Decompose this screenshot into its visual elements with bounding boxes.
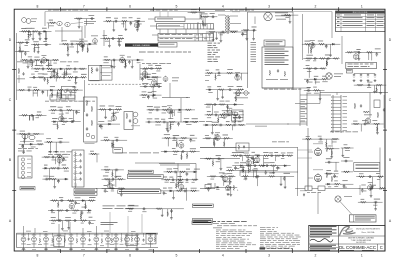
value label — [147, 105, 153, 108]
wire drop W2 — [39, 31, 41, 37]
resistor R52 — [55, 76, 62, 78]
wire net W240 — [359, 187, 384, 189]
svg-text:1: 1 — [361, 5, 363, 9]
ground G20 — [289, 21, 292, 24]
ground G46 — [22, 151, 25, 154]
label box r3c1a — [20, 187, 35, 190]
diode CR22 — [64, 178, 68, 180]
resistor R90 — [237, 89, 244, 91]
wire net W174 — [102, 178, 126, 180]
ref label — [234, 167, 239, 170]
caption r2c2 top — [142, 62, 171, 65]
ref label — [361, 190, 366, 193]
ref label — [53, 123, 57, 126]
diode CR21 — [44, 167, 48, 169]
ref label — [89, 222, 94, 225]
resistor R39 — [306, 58, 313, 60]
value label — [21, 27, 26, 30]
resistor R176 — [326, 173, 333, 175]
ref label — [241, 33, 246, 36]
value label — [49, 19, 53, 22]
resistor R165 — [205, 158, 212, 160]
value label — [362, 119, 368, 122]
resistor R50 — [79, 68, 86, 70]
value label — [284, 172, 291, 175]
resistor R167 — [227, 169, 234, 171]
capacitor C115 shunt — [81, 211, 84, 215]
wire drop W202 — [274, 156, 276, 161]
cluster mid r2c2 — [146, 105, 199, 132]
resistor R113 pulldown — [376, 126, 378, 132]
wire drop W156 — [25, 134, 27, 139]
cluster r3c3 low — [206, 173, 237, 197]
wire drop W78 — [64, 69, 66, 76]
value label — [326, 157, 331, 160]
resistor R103 pulldown — [217, 118, 219, 124]
capacitor C27 shunt — [53, 69, 56, 73]
resistor R28 pulldown — [125, 62, 127, 68]
value label — [194, 168, 200, 171]
ref label — [87, 212, 91, 215]
ref label — [75, 202, 80, 205]
wire drop W250 — [80, 211, 82, 220]
capacitor C74 — [58, 141, 62, 144]
resistor R10 — [76, 43, 83, 45]
tube V5 — [310, 42, 315, 49]
caption r2c2 bot — [183, 120, 212, 123]
caption r4c2 — [103, 206, 139, 209]
svg-text:4: 4 — [222, 254, 224, 258]
ground G72 — [374, 208, 377, 211]
wire drop W97 — [33, 115, 35, 120]
resistor R119 — [56, 156, 63, 158]
value label — [46, 137, 51, 140]
wire net W93 — [19, 114, 47, 116]
ref label — [315, 81, 320, 84]
resistor R150 — [205, 137, 212, 139]
ref label — [38, 32, 42, 35]
capacitor C46 shunt — [147, 95, 150, 99]
wire drop W209 — [273, 166, 275, 172]
svg-text:DL CO99MB-ACC: DL CO99MB-ACC — [339, 245, 377, 250]
resistor R6 pulldown — [19, 46, 21, 52]
ground G54 — [172, 197, 175, 200]
wire drop W244 — [325, 139, 327, 146]
resistor R92 — [235, 92, 242, 94]
resistor R139 pulldown — [186, 153, 188, 159]
resistor R130 — [118, 188, 125, 190]
ref label — [228, 178, 232, 181]
resistor R144 — [177, 179, 184, 181]
wire drop W176 — [115, 179, 117, 187]
wire drop W90 — [60, 90, 62, 96]
resistor R67 — [36, 114, 43, 116]
ground G62 — [284, 186, 287, 189]
top small box r2c2 — [100, 66, 112, 81]
svg-text:6: 6 — [129, 254, 131, 258]
resistor R25 — [117, 38, 124, 40]
svg-text:7: 7 — [83, 254, 85, 258]
wire net W255 — [125, 208, 184, 210]
value label — [322, 75, 326, 78]
resistor R87 — [206, 72, 213, 74]
resistor R53 — [67, 76, 74, 78]
value label — [235, 88, 241, 91]
capacitor C107 shunt — [343, 184, 346, 188]
cluster stage V2 — [103, 17, 145, 31]
power tube V8 — [313, 170, 333, 182]
capacitor C12 shunt — [130, 21, 133, 25]
wire drop W184 — [176, 138, 178, 147]
resistor R135 — [181, 137, 188, 139]
wire drop W193 — [173, 191, 175, 197]
value label — [148, 64, 152, 67]
value label — [25, 39, 30, 42]
value label — [127, 56, 131, 59]
ground G3 — [44, 38, 47, 41]
value label — [145, 73, 150, 76]
capacitor C38 shunt — [75, 110, 78, 114]
wire net W74 — [31, 68, 87, 70]
ref label — [33, 92, 37, 95]
diode CR15 — [185, 121, 189, 123]
resistor R63 pulldown — [51, 92, 53, 98]
ref label — [219, 116, 223, 119]
resistor R133 pulldown — [112, 172, 114, 178]
ref label — [142, 210, 146, 213]
wire drop W40 — [119, 39, 121, 44]
wire net W33 — [103, 20, 145, 22]
value label — [161, 118, 165, 121]
wire drop W10 — [19, 43, 21, 53]
resistor R116 — [37, 143, 44, 145]
value label — [168, 117, 173, 120]
ground G63 — [330, 156, 333, 159]
value label — [108, 120, 112, 123]
capacitor C34 shunt — [42, 90, 45, 94]
wire drop W172 — [112, 140, 114, 147]
wire net W142 — [304, 89, 325, 91]
ground G6 — [76, 51, 79, 54]
wire net W51 — [200, 16, 217, 18]
value label — [359, 172, 364, 175]
resistor R128 — [104, 178, 111, 180]
wire net W175 — [102, 188, 125, 190]
bordered label r3c2a2 — [127, 175, 163, 179]
strip feeds r4c2 — [110, 212, 142, 233]
ref label — [307, 70, 311, 73]
wire drop W77 — [74, 77, 76, 81]
resistor R190 — [73, 210, 80, 212]
wire net W104 — [97, 123, 120, 125]
value label — [281, 152, 286, 155]
wire drop W139 — [211, 125, 213, 132]
value label — [148, 91, 152, 94]
value label — [212, 121, 219, 124]
wire drop W164 — [54, 179, 56, 185]
tube V11 — [142, 70, 147, 77]
resistor R85 — [192, 121, 199, 123]
ground G32 — [104, 116, 107, 119]
ref label — [66, 112, 69, 115]
wire drop W134 — [211, 105, 213, 115]
resistor R16 — [52, 59, 59, 61]
cluster tank right — [188, 9, 205, 20]
wire net W12 — [47, 22, 56, 24]
wire net W235 — [341, 160, 353, 162]
wire drop W212 — [220, 159, 222, 168]
value label — [65, 216, 71, 219]
value label — [31, 73, 35, 76]
capacitor C98 — [241, 169, 245, 172]
bordered label r3c2b — [118, 190, 161, 194]
ref label — [137, 23, 142, 26]
bottom labels r1c1 — [17, 61, 78, 64]
ground G12 — [136, 29, 139, 32]
value label — [62, 73, 66, 76]
wire net W8 — [16, 42, 29, 44]
wire drop W102 — [61, 110, 63, 117]
capacitor C15 shunt — [128, 60, 131, 64]
diode CR12 — [146, 76, 150, 78]
wire drop W66 — [326, 59, 328, 65]
filter caps row — [353, 74, 377, 82]
wire drop W221 — [229, 176, 231, 184]
resistor R192 — [65, 220, 72, 222]
capacitor C40 — [108, 108, 112, 111]
value label — [104, 56, 108, 59]
ref label — [149, 112, 152, 115]
value label — [98, 120, 104, 123]
wire drop W22 — [67, 44, 69, 50]
ground G59 — [244, 177, 247, 180]
value label — [58, 137, 63, 140]
strip feed wires — [24, 224, 97, 233]
capacitor C10 — [44, 43, 48, 46]
value label — [326, 169, 331, 172]
wire drop W69 — [330, 44, 332, 54]
diode CR23 — [111, 188, 115, 190]
capacitor C71 — [56, 167, 60, 170]
wire net W64 — [303, 58, 338, 60]
footswitch box r2c1 — [62, 86, 75, 98]
resistor R161 — [270, 165, 277, 167]
ref label — [81, 222, 84, 225]
value label — [225, 100, 229, 103]
wire net W188 — [164, 171, 198, 173]
resistor R129 — [117, 178, 124, 180]
wire drop W168 — [49, 142, 51, 150]
resistor R89 — [218, 89, 225, 91]
diode CR17 — [233, 104, 237, 106]
ground G25 — [245, 38, 248, 41]
capacitor C102 — [256, 175, 260, 178]
cluster chain y115 — [19, 112, 47, 121]
value label — [154, 106, 160, 109]
resistor R170 — [228, 175, 235, 177]
value label — [325, 54, 330, 57]
tube label — [111, 112, 116, 115]
cluster r2c4 low — [351, 120, 384, 134]
wire drop W227 — [284, 176, 286, 186]
capacitor C55 — [213, 103, 217, 106]
capacitor C97 — [217, 158, 221, 161]
title block — [309, 225, 385, 251]
tube label — [215, 131, 220, 134]
tube label — [69, 200, 74, 203]
ground G39 — [221, 96, 224, 99]
ref label — [121, 23, 124, 26]
ground G31 — [61, 117, 64, 120]
tube label — [353, 50, 358, 53]
capacitor C49 — [147, 121, 151, 124]
resistor R152 pulldown — [214, 141, 216, 147]
capacitor C2 shunt — [38, 31, 41, 35]
zone ticks left — [12, 70, 16, 191]
panel rect r2c2 — [124, 112, 133, 130]
value label — [104, 136, 108, 139]
wire drop W217 — [255, 170, 257, 175]
resistor R5 — [18, 50, 25, 52]
wire drop W35 — [125, 21, 127, 28]
resistor R66 — [21, 114, 28, 116]
value label — [344, 143, 348, 146]
wire net W229 — [325, 161, 339, 163]
capacitor C92 — [281, 154, 285, 157]
ref label — [142, 96, 145, 99]
wire drop W241 — [371, 177, 373, 186]
wire drop W37 — [136, 21, 138, 29]
hum box r2c3 — [222, 90, 243, 122]
ref label — [30, 61, 34, 64]
ref label — [155, 124, 161, 127]
ref label — [62, 159, 67, 162]
value label — [172, 147, 176, 150]
wire drop W257 — [161, 209, 163, 214]
resistor R125 — [103, 139, 110, 141]
value label — [216, 69, 220, 72]
misc glyph r4c3 — [300, 191, 307, 197]
capacitor C79 — [172, 137, 176, 140]
wire net W219 — [207, 175, 236, 177]
ref label — [178, 111, 182, 114]
wire drop W58 — [212, 32, 214, 39]
wire drop W181 — [115, 170, 117, 176]
wire into label b — [96, 188, 118, 190]
value label — [67, 64, 71, 67]
wire drop W4 — [32, 31, 34, 37]
wire drop W11 — [21, 51, 23, 58]
diode CR7 — [59, 68, 63, 70]
resistor R196 pulldown — [57, 202, 59, 208]
pot panel box r3c1 — [18, 156, 32, 179]
value label — [238, 120, 242, 123]
wire drop W52 — [202, 17, 204, 27]
value label — [33, 40, 38, 43]
wire drop W79 — [75, 77, 77, 81]
wire drop W7 — [45, 31, 47, 37]
wire net W259 — [358, 201, 383, 203]
wire drop W106 — [101, 124, 103, 129]
value label — [318, 40, 323, 43]
wire net W220 — [206, 186, 237, 188]
capacitor C42 — [149, 67, 153, 70]
ref label — [190, 140, 195, 143]
svg-text:Brea, CA USA: Brea, CA USA — [362, 231, 375, 234]
label boxes r3c1b — [74, 189, 97, 196]
wire drop W185 — [186, 152, 188, 157]
top bus labels — [48, 9, 254, 12]
wire net W54 — [281, 14, 298, 16]
cluster r2c3 main — [203, 101, 246, 134]
tube label — [227, 107, 232, 110]
tube V1 — [79, 40, 84, 47]
value label — [111, 184, 115, 187]
wire net W248 — [49, 220, 96, 222]
capacitor C63 shunt — [306, 79, 309, 83]
value label — [104, 166, 108, 169]
value label — [152, 72, 156, 75]
resistor R198 — [156, 208, 163, 210]
capacitor C109 shunt — [361, 188, 364, 192]
ref label — [307, 81, 312, 84]
cluster out tubes res — [325, 146, 341, 188]
wire drop W72 — [371, 52, 373, 60]
value label — [20, 130, 25, 133]
value label — [100, 105, 106, 108]
resistor R55 pulldown — [66, 71, 68, 77]
resistor R45 — [347, 51, 354, 53]
zone col labels top — [36, 5, 362, 9]
cluster r3c4 low — [356, 173, 386, 197]
diode CR10 — [53, 121, 57, 123]
value label — [334, 170, 338, 173]
ref label — [185, 181, 188, 184]
cluster right r1c4 — [345, 49, 381, 61]
bordered label r3c2a — [128, 170, 153, 173]
svg-text:2: 2 — [315, 254, 317, 258]
resistor R147 — [190, 190, 197, 192]
capacitor C35 — [65, 89, 69, 92]
impedance chart band — [158, 34, 214, 42]
notes text block — [213, 221, 301, 250]
capacitor C114 — [65, 209, 69, 212]
svg-text:NORMAL CHANNEL: NORMAL CHANNEL — [133, 44, 151, 47]
wire net W196 — [203, 137, 233, 139]
capacitor C84 — [171, 179, 175, 182]
wire drop W204 — [263, 156, 265, 165]
value label — [206, 69, 210, 72]
wire drop W57 — [216, 32, 218, 37]
ref label — [69, 46, 74, 49]
wire net W39 — [100, 38, 124, 40]
ref label — [53, 62, 57, 65]
ground G21 — [215, 37, 218, 40]
wire drop W152 — [376, 124, 378, 132]
resistor R61 — [57, 89, 64, 91]
resistor R157 — [275, 155, 282, 157]
power tube V7 — [313, 144, 333, 156]
cluster under jack — [241, 27, 256, 40]
resistor R38 — [318, 43, 325, 45]
jack box r4c4 — [295, 185, 360, 195]
resistor R4 — [18, 42, 25, 44]
wire net W171 — [101, 139, 128, 141]
wire drop W45 — [113, 60, 115, 66]
resistor R32 pulldown — [202, 20, 204, 26]
value label — [152, 90, 157, 93]
cluster PI bottom — [226, 167, 278, 180]
